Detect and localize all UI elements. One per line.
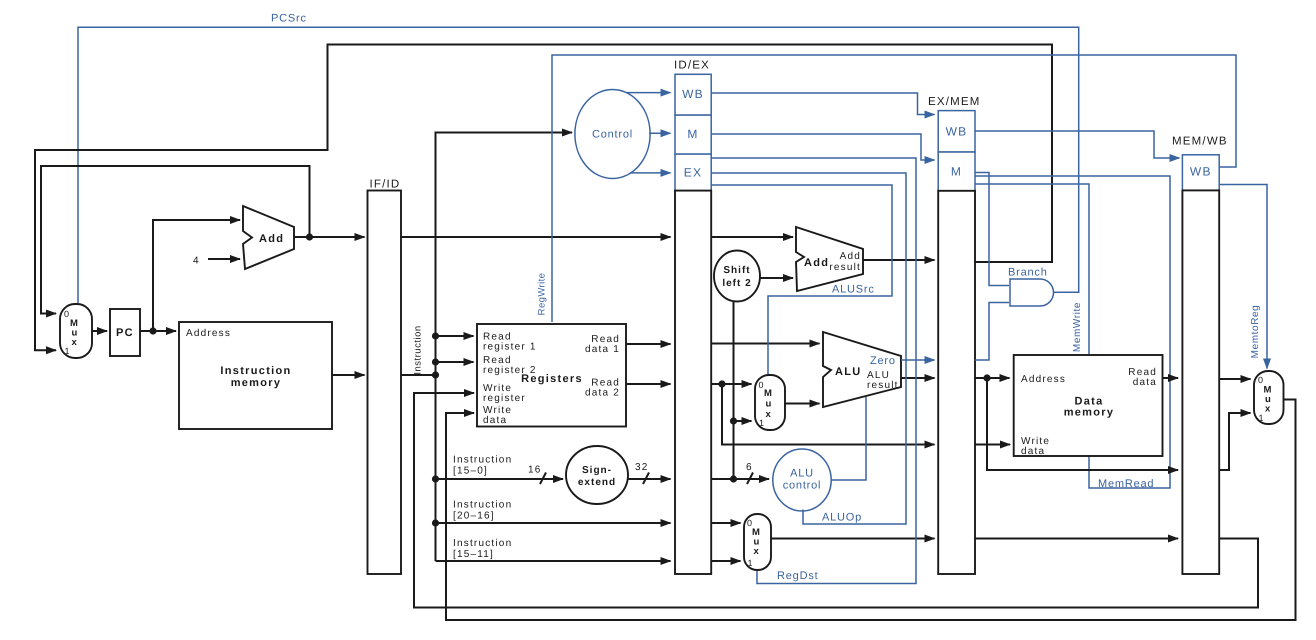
wire Add result to EX/MEM <box>863 259 935 261</box>
svg-text:PCSrc: PCSrc <box>271 13 307 25</box>
svg-text:data 2: data 2 <box>585 388 620 399</box>
wire Read data 1 to ID/EX <box>626 343 671 345</box>
wire Instruction 20-16 to ID/EX <box>436 522 671 524</box>
svg-text:Branch: Branch <box>1008 267 1048 279</box>
svg-text:PC: PC <box>116 327 134 339</box>
svg-text:Instruction: Instruction <box>220 365 291 377</box>
svg-text:IF/ID: IF/ID <box>370 179 401 191</box>
svg-text:M: M <box>687 127 698 141</box>
wire MemRead: EX/MEM M to Data memory bottom <box>975 176 1170 488</box>
wire PC to Instruction memory <box>140 330 176 332</box>
wire Instruction memory to IF/ID <box>332 374 365 376</box>
svg-text:u: u <box>766 399 772 410</box>
slash 6 <box>747 473 753 485</box>
mux M1 (PC source) <box>60 304 92 358</box>
svg-text:x: x <box>72 337 78 348</box>
wire RegWrite: MEM/WB WB to Registers <box>552 55 1236 322</box>
wire RegDst: ID/EX EX to Mux3 select <box>711 158 916 584</box>
wire PC+4 ID/EX to Add result <box>711 236 793 238</box>
wire immediate ID/EX to ALU control <box>711 478 769 480</box>
junction dot immediate <box>730 475 737 482</box>
wire instruction bus vertical <box>436 133 573 562</box>
junction dot PC output <box>149 327 156 334</box>
junction dot mux2 input1 branch <box>730 417 737 424</box>
wire PC+4 IF/ID to ID/EX <box>401 236 671 238</box>
svg-text:Registers: Registers <box>521 373 583 385</box>
svg-text:MEM/WB: MEM/WB <box>1172 136 1228 148</box>
svg-text:[15–0]: [15–0] <box>453 466 488 477</box>
slash 16 <box>540 473 546 485</box>
svg-text:register 1: register 1 <box>483 342 537 353</box>
svg-text:ALU: ALU <box>790 468 814 480</box>
svg-text:extend: extend <box>578 477 616 488</box>
wire Zero to EX/MEM <box>901 359 935 361</box>
wire Data memory read data to MEM/WB <box>1163 377 1178 379</box>
svg-text:Add: Add <box>804 257 829 269</box>
wire bus to Read register 1 <box>436 335 474 337</box>
junction dot ALU result <box>983 374 990 381</box>
wire Read data 1 ID/EX to ALU <box>711 343 820 345</box>
wire Control to ID/EX EX <box>630 172 671 174</box>
wire WB: ID/EX to EX/MEM <box>711 93 935 115</box>
wire store data: dot to EX/MEM <box>722 384 935 445</box>
svg-text:M: M <box>764 388 772 399</box>
svg-text:WB: WB <box>946 125 968 139</box>
svg-text:RegDst: RegDst <box>777 570 818 582</box>
mux M4 (MemtoReg) <box>1254 371 1284 424</box>
wire branch store data EX/MEM to Data memory write <box>975 444 1010 446</box>
svg-text:memory: memory <box>1064 407 1115 419</box>
wire Instruction 15-11 ID/EX to Mux3 input 1 <box>711 560 741 562</box>
slash 32 <box>643 473 649 485</box>
wire write register number EX/MEM to MEM/WB <box>975 538 1178 540</box>
svg-text:16: 16 <box>528 465 542 476</box>
svg-text:data: data <box>1021 446 1045 457</box>
wire Read data 2 ID/EX to Mux2 input 0 <box>711 383 752 385</box>
oval Control <box>575 90 650 179</box>
wire Add output to IF/ID <box>294 236 365 238</box>
svg-text:RegWrite: RegWrite <box>537 273 548 316</box>
wire PC+4 feedback: Add output to Mux1 input 0 <box>41 166 310 314</box>
wire WB: EX/MEM to MEM/WB <box>975 131 1180 158</box>
wire Mux1 to PC <box>92 330 107 332</box>
svg-text:6: 6 <box>746 462 753 473</box>
block Data memory <box>1014 355 1163 457</box>
svg-text:Zero: Zero <box>870 355 896 367</box>
wire Zero: EX/MEM to AND gate <box>975 303 1009 361</box>
junction dot read data 2 <box>718 380 725 387</box>
wire write register number: MEM/WB to Registers write register <box>414 393 1258 608</box>
wire ALU result to EX/MEM <box>901 377 935 379</box>
wire Instruction 15-0 to Sign-extend <box>436 478 564 480</box>
wire ALUOp: ID/EX EX to ALU control <box>711 173 906 524</box>
svg-text:WB: WB <box>1190 165 1212 179</box>
svg-text:M: M <box>951 165 962 179</box>
svg-text:control: control <box>783 480 822 492</box>
svg-text:ID/EX: ID/EX <box>674 60 710 72</box>
svg-text:data: data <box>483 415 507 426</box>
oval Shift left 2 <box>714 251 760 302</box>
wire bus to Read register 2 <box>436 361 474 363</box>
mux M3 (RegDst) <box>744 514 771 570</box>
svg-text:[20–16]: [20–16] <box>453 511 495 522</box>
svg-text:Address: Address <box>186 328 231 339</box>
wire Mux3 output to EX/MEM <box>771 538 935 540</box>
svg-text:result: result <box>829 262 861 273</box>
wire M: ID/EX to EX/MEM <box>711 134 935 160</box>
pipeline register MEM/WB <box>1172 136 1228 575</box>
svg-text:left 2: left 2 <box>722 278 751 289</box>
svg-text:Instruction: Instruction <box>413 325 424 374</box>
pipeline register IF/ID <box>368 179 402 575</box>
svg-text:register: register <box>483 393 526 404</box>
junction dots instruction bus <box>432 332 439 339</box>
wire Control to ID/EX M <box>649 132 671 134</box>
svg-text:memory: memory <box>231 377 282 389</box>
svg-text:Instruction: Instruction <box>453 500 512 511</box>
svg-text:x: x <box>1265 404 1271 415</box>
svg-text:data 1: data 1 <box>585 344 620 355</box>
wire Sign-extend to ID/EX <box>628 478 671 480</box>
svg-text:Shift: Shift <box>723 265 750 276</box>
svg-text:Add: Add <box>840 251 861 262</box>
svg-text:Add: Add <box>259 233 284 245</box>
wire Branch: EX/MEM M to AND gate <box>975 173 1009 286</box>
svg-text:Sign-: Sign- <box>582 465 612 476</box>
svg-text:MemWrite: MemWrite <box>1072 302 1083 352</box>
svg-text:MemtoReg: MemtoReg <box>1250 305 1261 359</box>
wire Instruction 20-16 ID/EX to Mux3 input 0 <box>711 522 741 524</box>
wire constant 4 to Add <box>208 258 240 260</box>
block Registers <box>477 324 626 427</box>
pipeline register EX/MEM <box>928 96 981 574</box>
wire PCSrc: AND gate output to Mux1 select <box>78 27 1079 303</box>
svg-text:1: 1 <box>748 558 753 568</box>
pipeline register ID/EX <box>674 60 711 575</box>
wire read data MEM/WB to Mux4 input 0 <box>1219 378 1251 380</box>
svg-text:x: x <box>754 546 760 557</box>
wire MemtoReg: MEM/WB WB to Mux4 select <box>1219 185 1267 369</box>
svg-text:ALUOp: ALUOp <box>822 512 862 524</box>
wire ALUSrc: ID/EX EX to Mux2 select <box>711 185 892 375</box>
wire Instruction 15-11 to ID/EX <box>436 560 671 562</box>
svg-text:[15–11]: [15–11] <box>453 549 494 560</box>
oval Sign-extend <box>566 446 628 504</box>
svg-text:Control: Control <box>592 129 633 141</box>
svg-text:x: x <box>766 409 772 420</box>
wire PC to Add <box>153 220 240 331</box>
alu ALU <box>823 332 901 407</box>
wire ALU result EX/MEM to Data memory address <box>975 377 1010 379</box>
svg-text:0: 0 <box>64 309 69 319</box>
wire Read data 2 to ID/EX <box>626 383 671 385</box>
svg-text:0: 0 <box>759 380 764 390</box>
svg-text:WB: WB <box>682 87 704 101</box>
wire MemWrite: EX/MEM M to Data memory <box>975 184 1089 354</box>
wire ALU control to ALU <box>831 397 866 480</box>
block Instruction memory <box>179 322 332 429</box>
wire instruction IF/ID to bus <box>401 374 436 376</box>
junction dot Add output <box>306 233 313 240</box>
svg-text:Instruction: Instruction <box>453 538 512 549</box>
wire Control to ID/EX WB <box>626 92 671 94</box>
oval ALU control <box>773 449 831 511</box>
svg-text:MemRead: MemRead <box>1098 478 1154 490</box>
svg-text:1: 1 <box>1259 413 1264 423</box>
svg-text:4: 4 <box>193 256 200 267</box>
svg-text:EX: EX <box>684 166 702 180</box>
wire Shift left 2 to Add result <box>760 277 793 279</box>
mux M2 (ALU source) <box>755 375 785 430</box>
register PC <box>110 309 140 356</box>
svg-text:Address: Address <box>1021 374 1066 385</box>
wire ALU result bypass to MEM/WB <box>987 378 1178 470</box>
wire write-back data: Mux4 to Registers write data <box>446 400 1296 621</box>
svg-text:32: 32 <box>635 462 649 473</box>
gate AND (branch) <box>1008 267 1058 307</box>
svg-text:1: 1 <box>65 346 70 356</box>
svg-text:1: 1 <box>759 418 764 428</box>
adder Add (PC+4) <box>243 206 294 269</box>
svg-text:ALU: ALU <box>835 366 862 378</box>
wire Mux2 to ALU <box>785 403 820 405</box>
svg-text:EX/MEM: EX/MEM <box>928 96 981 108</box>
wire immediate up to Shift left 2 and Mux2 input 1 <box>733 301 735 479</box>
wire branch target: EX/MEM to Mux1 input 1 <box>35 45 1052 351</box>
svg-text:result: result <box>867 380 899 391</box>
svg-text:Instruction: Instruction <box>453 455 512 466</box>
svg-text:ALUSrc: ALUSrc <box>832 284 875 296</box>
adder Add result <box>796 227 863 291</box>
wire ALU result bypass MEM/WB to Mux4 input 1 <box>1219 413 1251 470</box>
svg-text:data: data <box>1133 377 1157 388</box>
svg-text:0: 0 <box>1258 375 1263 385</box>
